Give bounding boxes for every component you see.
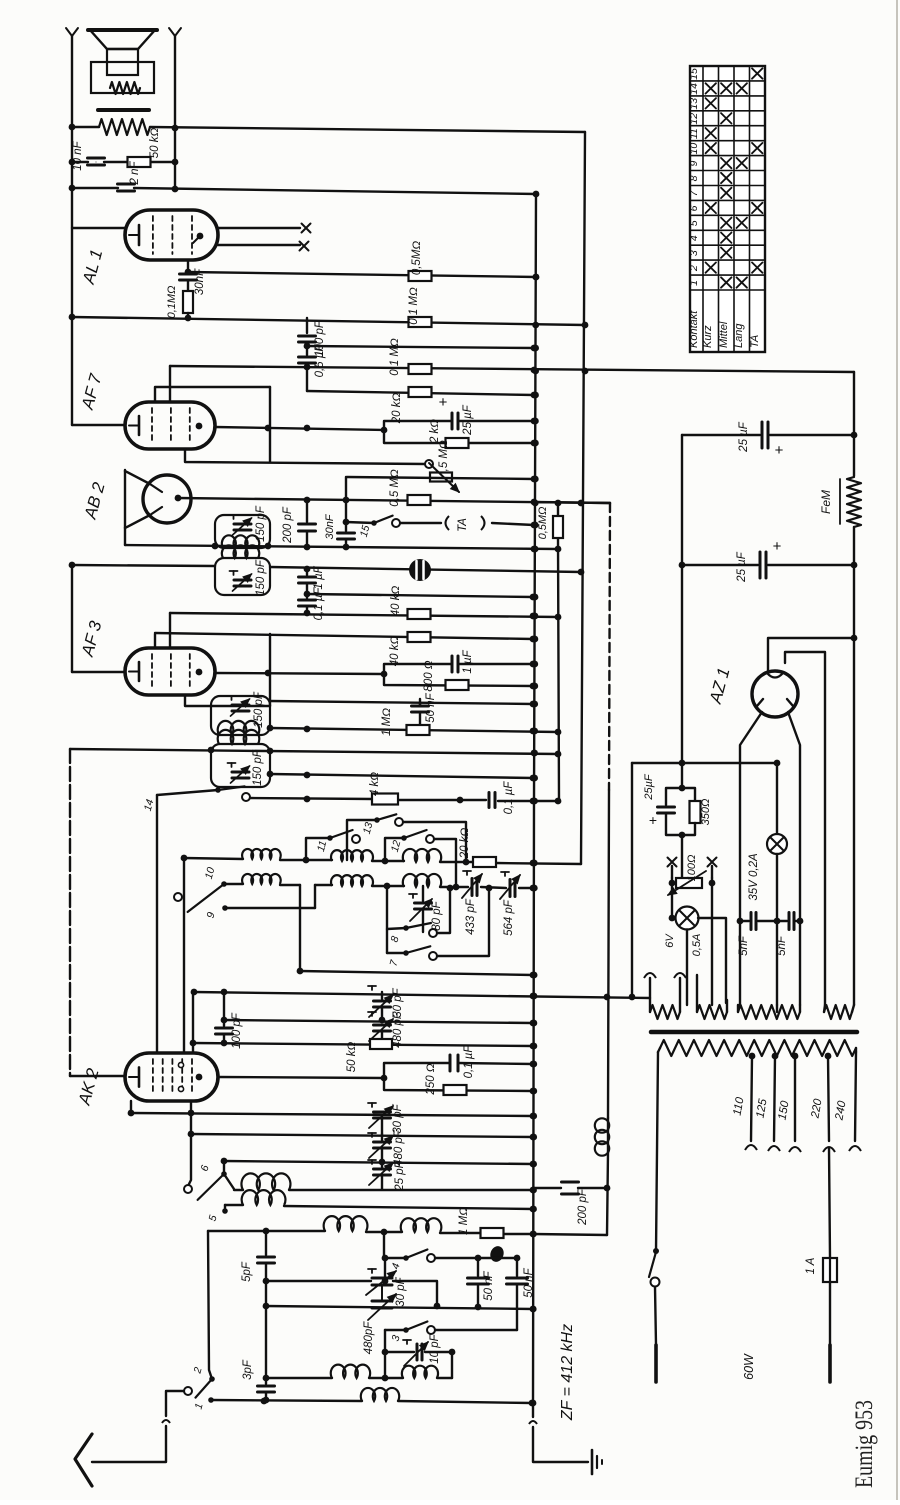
junction (304, 497, 311, 504)
svg-text:ZF = 412 kHz: ZF = 412 kHz (559, 1324, 576, 1421)
AK2 plate dot (196, 1074, 203, 1081)
capacitor 25µF #1 (761, 422, 764, 448)
switch contact 12 (401, 835, 407, 841)
tap hook 110 (745, 1145, 757, 1150)
wire mains cord left (655, 1287, 656, 1345)
wire row2 jog (299, 885, 301, 908)
svg-text:2 nF: 2 nF (129, 161, 141, 186)
wire 100pF chain (223, 992, 225, 1020)
wire fuse lead (829, 1148, 830, 1258)
resistor 350Ω (682, 788, 695, 801)
svg-text:50 nF: 50 nF (483, 1270, 495, 1300)
wire bus A speaker line (72, 126, 99, 128)
svg-text:480pF: 480pF (363, 1321, 375, 1355)
wire AF3 plate line (215, 673, 384, 674)
svg-text:1: 1 (688, 280, 700, 286)
wire sw4 feed (384, 1257, 406, 1259)
wire rail 1µF (384, 664, 452, 674)
svg-text:12: 12 (688, 113, 700, 125)
svg-text:0,5MΩ: 0,5MΩ (411, 241, 423, 276)
wire sw3 right (435, 1329, 517, 1331)
junction (382, 1255, 389, 1262)
wire sw4 drop (384, 1258, 386, 1281)
coil L9 (324, 1216, 368, 1231)
switch contact 11 (327, 835, 333, 841)
wire AL1 aux 1 (218, 227, 300, 229)
capacitor 0.1µF (299, 599, 316, 602)
wire sw8 vert (386, 886, 388, 953)
capacitor 50nF b (516, 1258, 518, 1276)
wire bus M (72, 565, 215, 566)
junction (737, 918, 744, 925)
wire 35V line (776, 763, 778, 834)
junction (669, 880, 676, 887)
wire sw6 stub (223, 1161, 225, 1174)
svg-text:800 Ω: 800 Ω (423, 660, 435, 691)
wire bus 1400 antenna (211, 1400, 362, 1401)
tube AL1 (125, 210, 218, 260)
trimmer 480pF (374, 1024, 391, 1027)
junction (382, 1349, 389, 1356)
wire antenna link (166, 1391, 184, 1416)
junction (263, 1228, 270, 1235)
wire sw3 drop (384, 1330, 386, 1352)
junction (261, 1398, 268, 1405)
junction (297, 968, 304, 975)
junction (531, 418, 538, 425)
wire bus O (170, 613, 558, 617)
coil L7 (241, 1173, 290, 1190)
svg-text:25 µF: 25 µF (738, 421, 750, 453)
wire bus 1281 (266, 1280, 371, 1282)
wire AF7 plate line (215, 427, 384, 430)
IF tank circuit 150pF (AK2 top) (211, 744, 270, 787)
wire X1 to ground (532, 1404, 534, 1417)
transformer secondary G3 HV (738, 1005, 800, 1019)
resistor 0.1MΩ on E (409, 317, 432, 327)
svg-text:3pF: 3pF (242, 1359, 254, 1380)
wire bus 971 (299, 908, 301, 971)
output transformer primary winding (99, 119, 150, 135)
junction (304, 591, 311, 598)
svg-text:30 pF: 30 pF (395, 1276, 407, 1306)
coil L10 (401, 1218, 442, 1232)
svg-text:Lang: Lang (733, 323, 745, 348)
resistor 50kΩ (128, 157, 151, 167)
x mark lamp a (668, 858, 677, 867)
junction (69, 562, 76, 569)
junction (449, 1349, 456, 1356)
junction (530, 636, 537, 643)
svg-text:50 kΩ: 50 kΩ (149, 128, 161, 159)
wire sw4 vert (383, 1232, 385, 1258)
capacitor 1µF (299, 576, 316, 579)
junction row2 (453, 884, 460, 891)
wire bus D AL1 grid (188, 272, 536, 277)
wire AZ1 plate right (788, 712, 800, 1005)
capacitor 200pF osc (533, 1187, 561, 1189)
wire band vertical (208, 1231, 212, 1379)
svg-text:5nF: 5nF (776, 935, 788, 956)
coil L1 (242, 849, 281, 859)
speaker cone (90, 30, 155, 49)
wire bus B (72, 161, 88, 163)
transformer secondary G1 (650, 1005, 680, 1019)
wire sw8 feed (387, 928, 406, 929)
svg-text:25 µF: 25 µF (462, 404, 474, 436)
svg-text:14: 14 (688, 83, 700, 95)
wire lamp right (698, 918, 726, 1003)
wire osc coil line 1190 (224, 1174, 234, 1189)
resistor 800Ω (446, 680, 469, 690)
wire 35V down (776, 854, 778, 1005)
svg-text:1 µF: 1 µF (462, 649, 474, 673)
coil L4 (242, 874, 281, 884)
tap hook 220 (823, 1147, 835, 1152)
wire AZ1 plate left (740, 712, 762, 1005)
wire 5nF line (740, 920, 749, 922)
trimmer 564pF (509, 880, 512, 897)
ground symbol (591, 1450, 594, 1474)
speaker magnet box (91, 62, 154, 93)
wire bus 992 heater (194, 992, 650, 998)
junction (679, 562, 686, 569)
wire block (681, 763, 683, 788)
wire stub (306, 363, 308, 367)
junction (265, 670, 272, 677)
wire bus pot 479 (347, 477, 534, 479)
switch contact 3 (403, 1327, 409, 1333)
antenna terminal hook left (66, 28, 72, 36)
coil L5 (331, 875, 373, 886)
wire bus L (125, 545, 558, 549)
svg-text:TA: TA (749, 335, 761, 348)
capacitor 1µF coupling (451, 656, 454, 672)
AB2 node dot (175, 495, 182, 502)
wire bus 1205 (225, 1204, 243, 1206)
junction (530, 701, 537, 708)
capacitor 3pF (258, 1385, 275, 1388)
wire rail 2kΩ (384, 430, 534, 443)
junction (679, 832, 686, 839)
wire bus P (154, 634, 156, 648)
trimmer 80pF (415, 902, 432, 905)
wire sw7 right (437, 888, 489, 956)
resistor 0.1MΩ vertical (187, 280, 189, 291)
wire grid3 vertical (192, 992, 194, 1053)
junction (263, 1375, 270, 1382)
mains switch (653, 1248, 659, 1254)
resistor 20kΩ row1 (473, 857, 496, 867)
capacitor 25µF electrolytic (451, 413, 454, 429)
antenna terminal hook right (169, 28, 175, 36)
wire AK2 cathode box (69, 749, 71, 1076)
wire contact9 line (225, 907, 315, 909)
wire osc feedback vertical (609, 503, 610, 790)
resistor FeM field coil (847, 477, 861, 527)
wire AF7 cathode box (72, 424, 125, 426)
svg-text:4: 4 (688, 235, 700, 241)
junction (851, 635, 858, 642)
svg-text:6: 6 (688, 205, 700, 211)
switch contact 14 (215, 787, 221, 793)
svg-text:3: 3 (688, 250, 700, 256)
wire bus U (270, 774, 533, 778)
junction taps (749, 1053, 756, 1060)
AB2 leads (125, 471, 150, 484)
capacitor 200pF (299, 523, 316, 526)
svg-text:TA: TA (457, 518, 469, 532)
junction (190, 1040, 197, 1047)
trimmer 10pF (416, 1344, 419, 1360)
svg-text:250 Ω: 250 Ω (425, 1063, 437, 1095)
ink blob (488, 1244, 506, 1263)
junction (212, 543, 219, 550)
wire vertical X2 (557, 503, 559, 516)
svg-text:5: 5 (688, 220, 700, 226)
svg-text:433 pF: 433 pF (465, 898, 477, 935)
svg-text:25 pF: 25 pF (394, 1160, 406, 1191)
svg-text:200 pF: 200 pF (577, 1188, 589, 1226)
svg-text:150 pF: 150 pF (252, 749, 264, 786)
wire bus 1231 osc (208, 1230, 325, 1232)
svg-text:480 pF: 480 pF (393, 1129, 405, 1166)
x mark (300, 242, 309, 251)
wire grid1 vertical (156, 795, 158, 1053)
wire bus F right corner (853, 372, 855, 476)
wire bus TA (346, 522, 374, 523)
resistor 0.5MΩ on D (409, 271, 432, 281)
wire bus G (306, 367, 308, 391)
svg-text:50 kΩ: 50 kΩ (346, 1042, 358, 1073)
wire AF7 feedback right (269, 387, 271, 462)
x mark lamp b (708, 858, 717, 867)
coil L2 (331, 850, 373, 861)
junction (208, 747, 215, 754)
wire bus 1042 (193, 1043, 533, 1046)
svg-text:1 MΩ: 1 MΩ (381, 708, 393, 736)
AB2 inner electrodes (150, 484, 162, 492)
wire speaker right vertical (174, 36, 176, 190)
AK2 pin circles (178, 1062, 183, 1067)
svg-text:Eumig 953: Eumig 953 (851, 1400, 878, 1488)
wire 10pF drop (451, 1352, 453, 1378)
trimmer 25pF osc (381, 1161, 383, 1167)
junction (191, 989, 198, 996)
wire block down (681, 835, 683, 877)
wire bus V (250, 798, 373, 799)
tube AF3 (125, 648, 215, 695)
transformer primary winding (660, 1040, 856, 1056)
fuse 1A (823, 1258, 837, 1282)
wire sw13 right (403, 822, 466, 862)
svg-text:+: + (775, 442, 784, 459)
tap hook 240 (849, 1146, 861, 1151)
wire 5pF chain (265, 1231, 267, 1255)
svg-text:25 µF: 25 µF (736, 551, 748, 583)
wire grid2 vertical (183, 858, 185, 1053)
svg-text:40 kΩ: 40 kΩ (389, 636, 401, 667)
wire 200pF stub2 (306, 531, 308, 547)
AL1 plate dot (197, 233, 204, 240)
wire bus T (70, 749, 558, 754)
capacitor 25µF #2 (759, 552, 762, 578)
wire AK2 cathode down (188, 1101, 191, 1186)
x mark (302, 224, 311, 233)
svg-text:15: 15 (688, 68, 700, 80)
switch contact 10 (221, 881, 227, 887)
wire bus N (307, 594, 533, 597)
wire bus J detector (178, 498, 610, 503)
junction (304, 796, 311, 803)
svg-text:10 nF: 10 nF (72, 140, 84, 170)
junction row1 (303, 857, 310, 864)
junction (267, 725, 274, 732)
capacitor 100pF (299, 335, 316, 338)
capacitor 25µF block (666, 788, 682, 805)
potentiometer 100Ω (676, 878, 702, 888)
junction (531, 476, 538, 483)
svg-text:35V 0,2A: 35V 0,2A (748, 853, 760, 901)
wire bus F1 (306, 342, 308, 355)
transformer core (651, 1030, 857, 1035)
wire 80pF stub2 (422, 909, 424, 932)
svg-text:0,5A: 0,5A (691, 934, 703, 957)
resistor 250Ω (444, 1085, 467, 1095)
junction (304, 364, 311, 371)
trimmer 433pF (471, 879, 474, 896)
svg-text:+: + (649, 812, 657, 828)
wire chain end (265, 1392, 267, 1400)
junction (221, 1158, 228, 1165)
switch contact 13 (374, 817, 380, 823)
junction (185, 269, 192, 276)
wire sw13 left (347, 820, 377, 860)
wire chain mid (265, 1263, 267, 1306)
coil L13 (402, 1366, 438, 1378)
wire x385 low (384, 1352, 386, 1378)
svg-text:30 pF: 30 pF (392, 1103, 404, 1133)
resistor 2kΩ (446, 438, 469, 448)
svg-text:10: 10 (688, 143, 700, 155)
svg-text:40 kΩ: 40 kΩ (390, 586, 402, 617)
transformer secondary G4 (824, 1005, 852, 1019)
wire bus 1133 (191, 1134, 533, 1137)
switch contact 7 (403, 950, 409, 956)
wire bus C (72, 187, 118, 189)
tube AB2 diode (143, 475, 191, 523)
wire AK2 plate line (218, 1077, 384, 1078)
contact 1 dot (208, 1397, 214, 1403)
capacitor 50nF a (477, 1258, 479, 1276)
tube AF7 (125, 402, 215, 449)
trimmer 30pF osc (374, 1111, 391, 1114)
wire bus S (270, 728, 558, 732)
capacitor 0.5µF (299, 356, 316, 359)
switch contact 15 (371, 520, 377, 526)
junction (343, 519, 350, 526)
svg-text:0,5 MΩ: 0,5 MΩ (389, 469, 401, 507)
junction (69, 185, 76, 192)
AF7 plate dot (196, 423, 203, 430)
junction (221, 1017, 228, 1024)
wire AZ1 top feed (768, 638, 854, 671)
wire bus 1306 (266, 1306, 533, 1309)
junction (263, 1303, 270, 1310)
junction dots on X1 (533, 191, 540, 198)
wire bus S0 (270, 701, 533, 704)
wire rail 800Ω (384, 674, 533, 686)
junction (188, 1131, 195, 1138)
junction (475, 1255, 482, 1262)
wire AF7 feedback top (155, 387, 270, 402)
capacitor 2nF (118, 183, 135, 186)
resistor 1MΩ on S (407, 725, 430, 735)
svg-text:200 pF: 200 pF (282, 506, 294, 544)
wire 25uF line 1 (682, 434, 760, 436)
svg-text:0,1 MΩ: 0,1 MΩ (408, 287, 420, 325)
wire main vertical bus X1 (533, 194, 536, 1404)
trimmer 30pF ant (372, 1277, 392, 1280)
wire break antenna (162, 1420, 170, 1423)
capacitor 5nF a (750, 913, 753, 930)
switch contact 6 (221, 1171, 227, 1177)
wire sw12 left (385, 838, 404, 861)
wire AZ1 filament right (785, 652, 825, 1005)
switch contact 8 (403, 925, 409, 931)
wire 80pF stub (422, 886, 424, 901)
svg-text:150 pF: 150 pF (255, 559, 267, 596)
svg-text:1 MΩ: 1 MΩ (458, 1207, 470, 1235)
wire sw4 right (435, 1257, 517, 1259)
svg-text:4 kΩ: 4 kΩ (369, 772, 381, 796)
junction (263, 1278, 270, 1285)
wire coil row1 (184, 858, 243, 859)
svg-text:+: + (439, 394, 448, 411)
wire osc vert lower (607, 1152, 608, 1235)
potentiometer body (430, 473, 452, 482)
wire AF7 grid (169, 366, 171, 402)
wire bus J extension (534, 502, 610, 503)
pot wiper arrow (429, 463, 459, 492)
capacitor 100pF AK2 (223, 1020, 225, 1026)
wire primary left down (656, 1052, 658, 1251)
junction (604, 1185, 611, 1192)
svg-text:10 pF: 10 pF (429, 1333, 441, 1363)
junction (265, 425, 272, 432)
wire bus 1378 (266, 1377, 332, 1379)
capacitor 30nF AL1 (180, 273, 197, 276)
wire 25uF line 2 (682, 564, 758, 566)
switch contact 4 (403, 1255, 409, 1261)
junction (531, 392, 538, 399)
svg-text:25µF: 25µF (643, 773, 655, 801)
AF3 plate dot (196, 669, 203, 676)
wire pot sides (671, 878, 673, 918)
svg-text:50 nF: 50 nF (425, 692, 437, 722)
trimmer 480pF osc (381, 1134, 383, 1140)
svg-text:150 pF: 150 pF (253, 691, 265, 728)
wire AF3 feedback right (269, 634, 271, 706)
resistor 0.5MΩ vertical (553, 516, 563, 538)
wire bus F (B+ line) (170, 366, 854, 372)
wire sw14 feed (157, 790, 218, 795)
junction (530, 1187, 537, 1194)
wire 30nF stub (345, 477, 347, 531)
svg-text:0,1 µF: 0,1 µF (503, 781, 515, 815)
junction (69, 159, 76, 166)
capacitor 5nF b (788, 913, 791, 930)
